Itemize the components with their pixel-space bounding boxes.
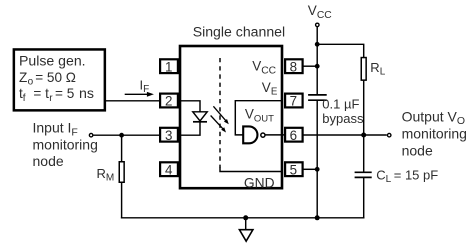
node input terminal circle — [89, 133, 93, 137]
svg-text:4: 4 — [165, 162, 173, 177]
svg-text:Single channel: Single channel — [193, 23, 285, 39]
svg-text:3: 3 — [165, 128, 172, 143]
gate output bubble — [261, 133, 265, 137]
wire pin 8 to VCC rail — [303, 65, 317, 67]
isolation barrier dashed line — [219, 58, 221, 168]
pin 6 — [285, 128, 303, 143]
resistor RM — [119, 135, 124, 218]
svg-text:1: 1 — [165, 59, 172, 74]
wire input node to pin 3 — [93, 134, 160, 136]
ground — [239, 218, 253, 241]
wire ground rail — [121, 217, 365, 219]
light emission arrow 2 — [211, 116, 226, 133]
svg-text:node: node — [402, 143, 433, 159]
junction VCC / RL branch — [315, 42, 320, 47]
input monitoring node label — [33, 120, 98, 170]
wire VCC to RL top — [317, 44, 364, 57]
wire RL bottom to output node — [363, 81, 365, 135]
svg-text:0.1 µF: 0.1 µF — [322, 96, 359, 111]
optocoupler U1 package body — [180, 46, 282, 188]
pin 8 — [285, 59, 303, 74]
svg-text:GND: GND — [244, 176, 275, 191]
wire pin 6 to output terminal — [303, 134, 387, 136]
gate U1 output stage — [243, 126, 257, 143]
junction rail / pin 5 — [315, 167, 320, 172]
pin 7 — [285, 94, 303, 109]
wire VE pin 7 to gate enable — [235, 101, 281, 135]
wire pin 2 to LED anode — [181, 101, 200, 112]
wire output to CL top — [363, 135, 365, 172]
node output terminal circle — [387, 133, 391, 137]
wire pulse gen to pin 2 — [105, 100, 160, 102]
svg-text:node: node — [33, 153, 64, 169]
pin 1 — [160, 59, 178, 74]
pin 3 — [160, 128, 178, 143]
junction output / CL — [361, 133, 366, 138]
pin 5 — [285, 162, 303, 177]
svg-text:7: 7 — [290, 94, 297, 109]
wire gate to pin 6 — [265, 134, 286, 136]
wire LED cathode to pin 3 — [181, 122, 200, 136]
svg-text:6: 6 — [290, 128, 297, 143]
node VCC terminal circle — [316, 23, 320, 27]
light emission arrow 1 — [213, 106, 228, 124]
wire barrier to GND pin side — [220, 168, 281, 172]
svg-text:monitoring: monitoring — [33, 136, 98, 152]
junction VCC / pin 8 — [315, 64, 320, 69]
output monitoring node label — [402, 108, 467, 158]
svg-text:5: 5 — [290, 162, 297, 177]
wire CL bottom to rail — [363, 178, 365, 219]
arrow IF — [125, 92, 154, 97]
svg-text:Output VO: Output VO — [402, 108, 465, 127]
capacitor bypass 0.1uF — [308, 95, 327, 100]
pin 2 — [160, 94, 178, 109]
wire VCC vertical upper — [316, 27, 318, 94]
pin 4 — [160, 162, 178, 177]
resistor RL — [361, 58, 366, 81]
svg-text:2: 2 — [165, 94, 172, 109]
wire pin 5 to rail — [303, 168, 317, 170]
label 0.1uF bypass — [322, 96, 364, 126]
LED D1 — [193, 112, 207, 122]
junction rail / ground rail — [315, 215, 320, 220]
svg-text:8: 8 — [290, 59, 297, 74]
svg-text:monitoring: monitoring — [402, 125, 467, 141]
capacitor CL — [355, 172, 372, 177]
junction input/RM — [119, 133, 124, 138]
junction ground — [243, 215, 248, 220]
svg-text:Pulse gen.: Pulse gen. — [19, 53, 86, 69]
svg-text:bypass: bypass — [322, 111, 364, 126]
pulse generator box — [14, 49, 105, 110]
wire VCC vertical lower — [316, 101, 318, 218]
